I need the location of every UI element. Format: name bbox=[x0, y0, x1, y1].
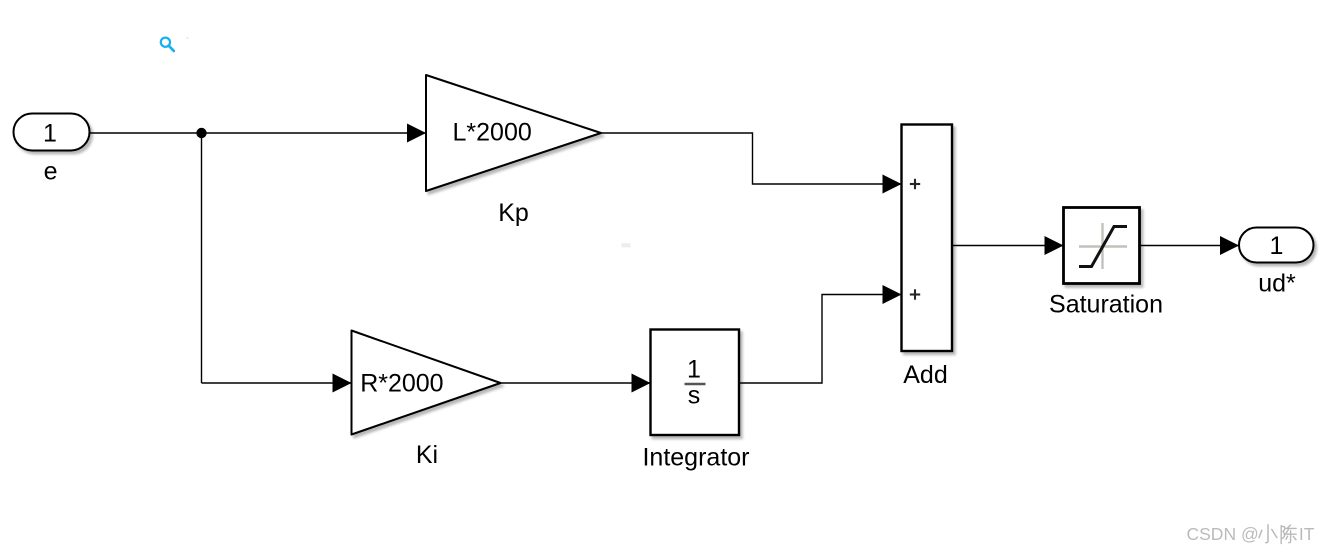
svg-text:ud*: ud* bbox=[1258, 270, 1296, 298]
svg-text:Integrator: Integrator bbox=[642, 444, 749, 472]
svg-text:1: 1 bbox=[687, 356, 701, 384]
svg-text:s: s bbox=[688, 382, 701, 410]
svg-text:Ki: Ki bbox=[416, 441, 438, 469]
svg-text:Add: Add bbox=[903, 361, 947, 389]
svg-text:1: 1 bbox=[43, 120, 57, 148]
svg-text:IT: IT bbox=[1299, 524, 1315, 544]
svg-text:1: 1 bbox=[1270, 232, 1284, 260]
svg-text:CSDN @: CSDN @ bbox=[1187, 524, 1259, 544]
svg-text:e: e bbox=[44, 158, 58, 186]
svg-text:R*2000: R*2000 bbox=[360, 369, 443, 397]
svg-text:L*2000: L*2000 bbox=[453, 119, 532, 147]
svg-text:Saturation: Saturation bbox=[1049, 291, 1163, 319]
svg-text:Kp: Kp bbox=[498, 199, 529, 227]
